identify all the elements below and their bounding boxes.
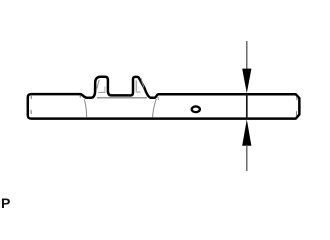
shaft body outline <box>28 77 300 119</box>
left prong inner vertical line <box>104 87 106 92</box>
lower arrow stem <box>246 145 248 171</box>
right end chamfer tick top <box>296 96 298 100</box>
boss hidden top edge behind prongs <box>97 97 147 99</box>
left prong inner chamfer diagonal <box>96 80 99 91</box>
right prong inner vertical line <box>135 80 137 91</box>
right prong base ledge line <box>136 91 141 93</box>
left prong base ledge line <box>98 91 105 93</box>
hole in shaft <box>192 106 200 112</box>
upper arrow head (pointing down) <box>242 69 251 94</box>
left end chamfer tick bottom <box>30 110 32 114</box>
tick after right step <box>157 96 160 100</box>
dimension line crossing shaft <box>246 94 248 120</box>
right prong inner chamfer diagonal <box>141 78 144 87</box>
upper arrow stem <box>246 41 248 70</box>
right step witness line <box>153 99 157 118</box>
left step witness line <box>84 99 86 117</box>
label P <box>1 195 10 211</box>
lower arrow head (pointing up) <box>242 119 251 146</box>
left end chamfer tick top <box>30 96 32 99</box>
tick before left step <box>79 95 81 98</box>
right end chamfer tick bottom <box>295 111 297 116</box>
